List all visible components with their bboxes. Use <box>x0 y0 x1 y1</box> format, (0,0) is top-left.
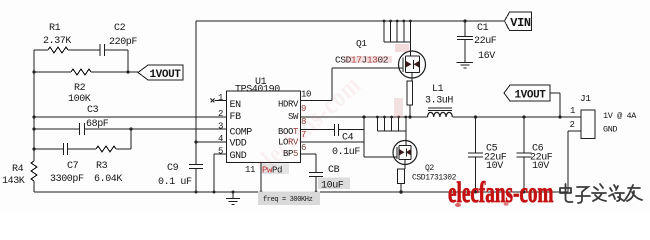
wire C4 LDRV shared vertical <box>362 115 365 157</box>
resistor R1 <box>43 23 71 53</box>
capacitor C9 <box>158 163 203 192</box>
IC U1 TPS40190 body <box>227 77 301 163</box>
svg-text:2.37K: 2.37K <box>43 36 71 47</box>
wire GND pin drop <box>214 154 227 192</box>
svg-text:freq = 300KHz: freq = 300KHz <box>263 196 313 204</box>
svg-text:1VOUT: 1VOUT <box>514 90 546 102</box>
svg-text:C7: C7 <box>67 161 79 172</box>
net flag 1VOUT left <box>138 65 183 81</box>
resistor R2 <box>68 69 91 105</box>
connector J1 <box>580 93 595 139</box>
svg-text:COMP: COMP <box>230 128 253 139</box>
svg-text:R3: R3 <box>96 161 108 172</box>
svg-text:3300pF: 3300pF <box>50 174 84 185</box>
wire BP5 to CB <box>301 154 317 172</box>
svg-text:CB: CB <box>328 165 340 176</box>
wire flag to output <box>550 93 560 117</box>
svg-text:Q2: Q2 <box>425 164 434 173</box>
ground symbol below rail <box>226 192 240 205</box>
svg-text:VIN: VIN <box>510 16 531 30</box>
pin 1 EN <box>211 93 242 111</box>
svg-text:R1: R1 <box>49 23 61 34</box>
svg-text:10V: 10V <box>486 161 503 172</box>
wire C7 R3 branch <box>32 147 131 150</box>
net flag VIN <box>505 12 532 31</box>
svg-text:1: 1 <box>570 106 575 116</box>
svg-text:EN: EN <box>230 100 242 111</box>
svg-text:Q1: Q1 <box>356 38 367 49</box>
wire J1 pin 2 <box>568 120 581 192</box>
svg-text:143K: 143K <box>2 176 25 187</box>
resistor R4 <box>2 161 37 187</box>
wire Q1 drain <box>409 42 411 52</box>
svg-text:11: 11 <box>245 165 255 175</box>
label freq note <box>258 192 320 206</box>
svg-text:C3: C3 <box>87 105 99 116</box>
capacitor C3 <box>80 105 109 135</box>
svg-text:C9: C9 <box>167 163 179 174</box>
wire Q2 source box <box>398 165 406 193</box>
wire VDD vertical from rail to C9 <box>195 21 197 164</box>
transistor Q1 <box>335 38 426 78</box>
wire SW line <box>301 115 428 118</box>
svg-text:GND: GND <box>230 151 247 162</box>
capacitor C1 <box>457 19 497 62</box>
wire FB line <box>32 115 226 118</box>
svg-text:R4: R4 <box>12 164 24 175</box>
svg-text:1V @ 4A: 1V @ 4A <box>603 111 637 121</box>
wire left vertical node <box>33 50 35 192</box>
pin 9 SW <box>288 104 306 122</box>
pin 11 PwPd powerpad <box>245 163 289 192</box>
svg-text:4: 4 <box>218 134 223 144</box>
ground symbol under C1 <box>457 62 474 68</box>
wire Q2 drain <box>405 131 407 141</box>
capacitor C5 <box>468 117 507 192</box>
capacitor CB <box>309 165 350 192</box>
svg-text:3: 3 <box>218 122 223 132</box>
svg-text:3.3uH: 3.3uH <box>425 96 453 107</box>
wire BOOT to C4 <box>301 129 365 131</box>
node bottom comb drain ties Q2 <box>376 116 407 131</box>
net flag 1VOUT right <box>504 85 550 102</box>
pin 3 COMP <box>218 122 252 139</box>
svg-text:GND: GND <box>603 125 617 135</box>
svg-text:L1: L1 <box>432 84 444 95</box>
wire VDD pin stub <box>194 140 226 143</box>
svg-text:2: 2 <box>218 109 223 119</box>
pin 6 BP5 <box>283 143 306 159</box>
capacitor C6 <box>517 117 553 192</box>
svg-text:2: 2 <box>570 120 575 130</box>
pin 4 VDD <box>218 134 247 150</box>
watermark chinese characters <box>560 184 642 203</box>
svg-text:elecfans-com: elecfans-com <box>448 177 554 209</box>
wire LDRV to Q2 gate <box>301 142 398 157</box>
wire bottom ground rail <box>34 190 568 193</box>
svg-text:0.1 uF: 0.1 uF <box>158 177 192 188</box>
svg-text:C1: C1 <box>477 23 489 34</box>
svg-text:10uF: 10uF <box>321 181 344 192</box>
watermark smudge near Q1 <box>344 44 409 118</box>
svg-text:C2: C2 <box>114 23 126 34</box>
svg-text:1VOUT: 1VOUT <box>149 69 181 81</box>
wire J1 pin 1 <box>560 106 581 117</box>
label J1 output <box>603 111 637 135</box>
capacitor C4 <box>332 124 360 158</box>
wire Q1 source box <box>407 78 413 117</box>
svg-text:22uF: 22uF <box>474 36 497 47</box>
svg-text:R2: R2 <box>74 83 86 94</box>
svg-text:100K: 100K <box>68 94 91 105</box>
wire output line <box>453 115 582 118</box>
svg-text:68pF: 68pF <box>86 119 109 130</box>
capacitor C7 <box>50 143 84 185</box>
svg-text:VDD: VDD <box>230 139 247 150</box>
pin 5 GND <box>218 147 247 163</box>
wire R2 branch <box>32 70 138 73</box>
svg-text:1: 1 <box>218 93 223 103</box>
svg-text:FB: FB <box>230 112 242 123</box>
wire top VIN rail <box>196 20 505 22</box>
pin 8 BOOT <box>278 117 306 137</box>
watermark diagonal faint <box>248 69 367 181</box>
wire R1 C2 branch <box>34 50 128 72</box>
pin 7 LDRV <box>278 130 306 148</box>
svg-text:6.04K: 6.04K <box>94 174 122 185</box>
svg-text:10: 10 <box>301 90 311 100</box>
svg-text:16V: 16V <box>478 51 495 62</box>
svg-text:HDRV: HDRV <box>278 100 299 110</box>
transistor Q2 <box>393 141 457 183</box>
wire COMP line <box>32 127 226 130</box>
svg-text:0.1uF: 0.1uF <box>332 147 360 158</box>
svg-text:5: 5 <box>218 147 223 157</box>
wire HDRV to Q1 gate <box>301 68 403 101</box>
pin 2 FB <box>218 109 241 123</box>
watermark elecfans red <box>448 177 554 209</box>
pin 10 HDRV <box>278 90 311 110</box>
svg-text:J1: J1 <box>580 93 591 104</box>
inductor L1 <box>425 84 453 117</box>
node top comb drain ties Q1 <box>383 20 412 42</box>
svg-text:10V: 10V <box>532 161 549 172</box>
svg-text:TPS40190: TPS40190 <box>235 85 280 96</box>
svg-text:220pF: 220pF <box>109 37 137 48</box>
capacitor C2 <box>100 23 137 56</box>
node COMP junction vertical <box>129 127 132 149</box>
resistor R3 <box>94 146 122 185</box>
